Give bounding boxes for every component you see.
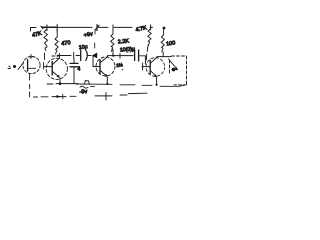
label MIC pointer xyxy=(8,63,24,70)
wire: R1 bottom to Q1 base node xyxy=(43,53,46,69)
svg-text:47K: 47K xyxy=(32,31,43,39)
resistor R3 2.2K xyxy=(111,29,114,55)
transistor Q2 xyxy=(96,56,115,84)
svg-text:1½: 1½ xyxy=(116,61,123,68)
earphone inner marks xyxy=(169,59,179,71)
node: rail junction at R3 top xyxy=(112,25,114,31)
svg-text:4.7K: 4.7K xyxy=(135,25,148,33)
svg-text:100: 100 xyxy=(166,40,176,47)
wire: collector node row of Q1 xyxy=(52,55,80,58)
node: rail right end junction xyxy=(163,27,166,30)
transistor Q1 xyxy=(44,54,67,84)
svg-text:-9v: -9v xyxy=(79,89,87,95)
wire: C1 to Q2 base xyxy=(93,56,100,67)
svg-text:+9v: +9v xyxy=(83,31,93,39)
node: rail junction at R1 top xyxy=(46,25,48,31)
label Tr2 scribble xyxy=(116,61,123,70)
svg-text:4: 4 xyxy=(78,67,81,73)
svg-text:470: 470 xyxy=(61,40,71,47)
node: junction tick at C2 top xyxy=(73,53,75,59)
node: rail mark near +9v xyxy=(95,25,99,31)
capacitor C3 100u xyxy=(135,50,146,64)
resistor R4 4.7K xyxy=(146,29,151,60)
resistor R2 470 xyxy=(55,29,58,54)
node: rail tick at R4 top xyxy=(150,25,152,30)
svg-text:10μ: 10μ xyxy=(79,44,88,51)
node: Q1 emitter junction dot xyxy=(59,82,62,85)
node: junction dot Q1 collector xyxy=(57,55,59,57)
node: ground tick to bottom wire xyxy=(105,93,107,101)
node: Q2 emitter junction dot xyxy=(106,83,108,85)
capacitor C2 (bypass) xyxy=(70,59,78,84)
node: junction dot at R3 bottom xyxy=(112,55,114,57)
node: Q3 emitter junction dot xyxy=(156,84,158,86)
node: rail junction at R2 top xyxy=(56,24,58,31)
earphone (dashed box) xyxy=(170,56,187,85)
wire: Q3 collector node to earphone xyxy=(157,56,171,58)
resistor R5 100 xyxy=(161,29,164,57)
svg-text:10(0)μ: 10(0)μ xyxy=(120,46,135,53)
microphone MIC xyxy=(23,55,40,89)
transistor Q3 xyxy=(142,56,165,84)
wire: dashes below +9v from rail xyxy=(94,30,96,48)
resistor R1 47K xyxy=(44,30,48,51)
svg-text:2.2K: 2.2K xyxy=(118,38,130,45)
wire: Q2 collector node to C3 xyxy=(108,55,133,57)
capacitor C1 10u (coupling) xyxy=(81,50,91,61)
wire: +9V top rail xyxy=(31,26,153,31)
wire: ground rail xyxy=(47,81,185,87)
wire: bottom supply wire xyxy=(30,92,147,99)
label -9v xyxy=(79,86,94,95)
node: arrow blob on wire to Q2 base xyxy=(92,53,97,59)
